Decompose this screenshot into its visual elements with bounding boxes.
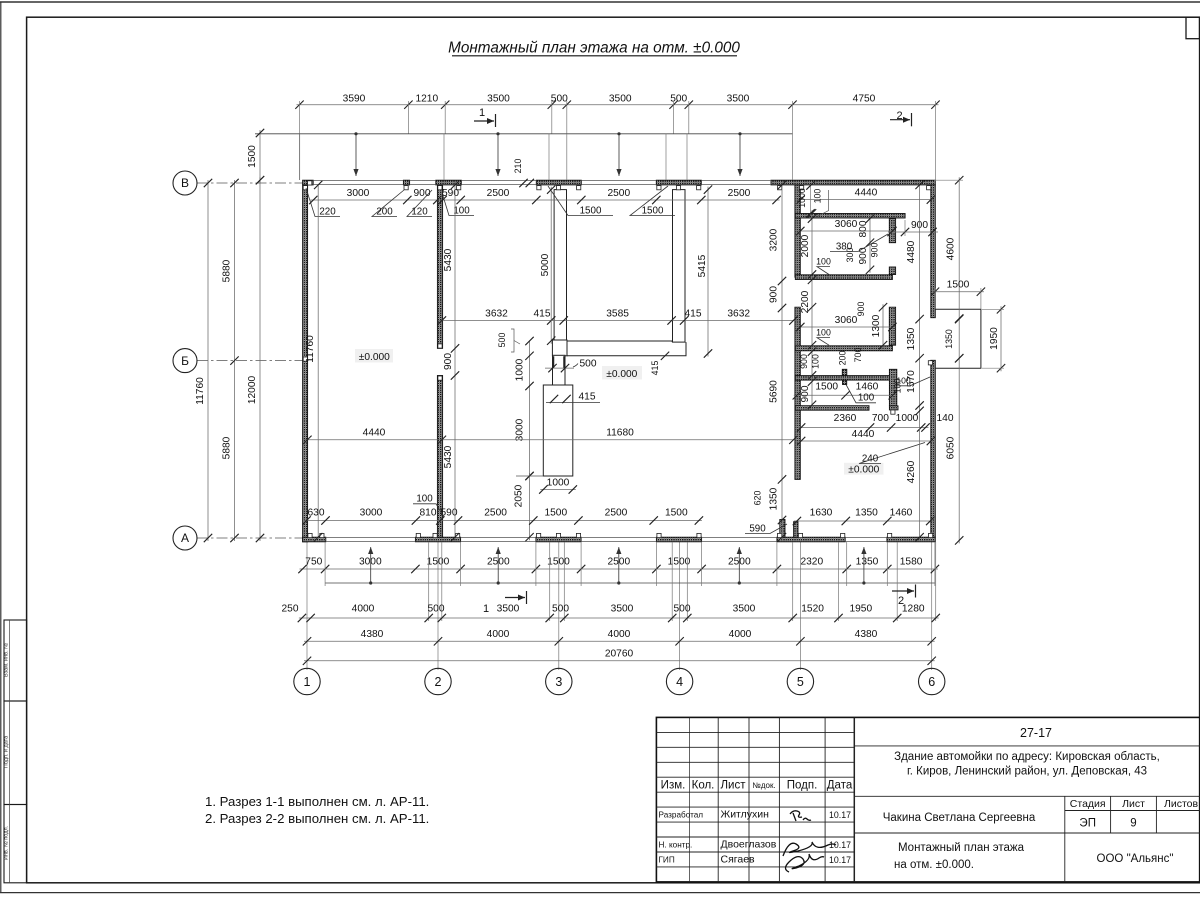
svg-text:Монтажный план этажа на отм. ±: Монтажный план этажа на отм. ±0.000 xyxy=(448,40,740,57)
window sill thin lines in bottom wall openings xyxy=(326,537,416,539)
svg-text:3632: 3632 xyxy=(727,309,750,320)
axis circle 1 xyxy=(294,668,320,694)
svg-text:11680: 11680 xyxy=(606,428,634,439)
extension lines from top dim row down to slab line xyxy=(407,101,409,134)
svg-text:Лист: Лист xyxy=(1122,798,1145,810)
svg-text:4380: 4380 xyxy=(361,629,384,640)
svg-text:Дата: Дата xyxy=(827,780,853,792)
svg-text:100: 100 xyxy=(813,189,823,204)
svg-text:1350: 1350 xyxy=(856,557,879,568)
svg-text:3500: 3500 xyxy=(497,604,520,615)
axis circle 6 xyxy=(919,668,945,694)
svg-text:2500: 2500 xyxy=(607,188,630,199)
axis circle А xyxy=(173,526,197,550)
corner doc-number box top right xyxy=(1186,17,1200,39)
svg-text:1460: 1460 xyxy=(890,508,913,519)
svg-text:1500: 1500 xyxy=(815,381,838,392)
svg-text:1500: 1500 xyxy=(642,205,664,216)
svg-text:9: 9 xyxy=(1130,818,1136,830)
svg-text:±0.000: ±0.000 xyxy=(606,369,637,380)
svg-text:2. Разрез 2-2 выполнен см. л.: 2. Разрез 2-2 выполнен см. л. АР-11. xyxy=(205,811,429,826)
svg-text:4440: 4440 xyxy=(855,188,878,199)
cluster partition 2 horizontal xyxy=(795,275,892,280)
svg-text:6050: 6050 xyxy=(946,436,957,459)
svg-text:3000: 3000 xyxy=(360,508,383,519)
svg-text:1000: 1000 xyxy=(515,358,526,381)
svg-text:590: 590 xyxy=(749,523,766,534)
svg-text:240: 240 xyxy=(862,453,879,464)
svg-text:900: 900 xyxy=(856,302,866,317)
svg-text:±0.000: ±0.000 xyxy=(848,464,879,475)
svg-text:590: 590 xyxy=(442,188,459,199)
ventilation duct on axis 4 xyxy=(673,190,686,343)
svg-text:700: 700 xyxy=(853,348,863,363)
svg-text:1300: 1300 xyxy=(871,314,882,337)
svg-text:4000: 4000 xyxy=(729,629,752,640)
axis circle В xyxy=(173,171,197,195)
svg-text:1000: 1000 xyxy=(547,478,570,489)
svg-text:1350: 1350 xyxy=(769,487,780,510)
svg-text:500: 500 xyxy=(552,604,569,615)
svg-text:4260: 4260 xyxy=(906,460,917,483)
svg-text:1500: 1500 xyxy=(544,508,567,519)
svg-text:3500: 3500 xyxy=(611,604,634,615)
sheet outer edge xyxy=(0,1,1200,3)
svg-text:3060: 3060 xyxy=(835,315,858,326)
svg-text:500: 500 xyxy=(497,333,507,348)
svg-text:Изм.: Изм. xyxy=(661,780,686,792)
svg-text:500: 500 xyxy=(674,604,691,615)
svg-text:1500: 1500 xyxy=(947,280,970,291)
svg-text:Б: Б xyxy=(181,354,189,368)
svg-text:Подп. и дата: Подп. и дата xyxy=(4,735,10,768)
dim 500 at duct neck xyxy=(545,367,574,369)
svg-text:3000: 3000 xyxy=(515,418,526,441)
leader 900 door top right xyxy=(888,231,938,233)
right exterior wall on axis 6 upper segment xyxy=(931,185,936,318)
cluster partition 4 horizontal xyxy=(795,376,893,381)
svg-text:900: 900 xyxy=(443,353,454,370)
svg-text:3500: 3500 xyxy=(487,93,510,104)
extension lines at building corners xyxy=(299,101,301,180)
svg-text:2: 2 xyxy=(435,675,442,689)
svg-text:1000: 1000 xyxy=(797,188,807,208)
svg-text:500: 500 xyxy=(670,93,687,104)
svg-text:3060: 3060 xyxy=(835,219,858,230)
room cluster left wall upper segment on axis 5 xyxy=(795,185,800,277)
svg-text:2360: 2360 xyxy=(834,413,857,424)
svg-text:2000: 2000 xyxy=(800,234,811,257)
svg-text:1460: 1460 xyxy=(856,381,879,392)
svg-text:1950: 1950 xyxy=(989,327,1000,350)
top exterior wall segments along row В xyxy=(303,180,314,185)
svg-text:6: 6 xyxy=(928,675,935,689)
svg-text:Чакина Светлана Сергеевна: Чакина Светлана Сергеевна xyxy=(883,812,1036,824)
svg-text:140: 140 xyxy=(937,413,954,424)
svg-text:3: 3 xyxy=(555,675,562,689)
svg-text:415: 415 xyxy=(534,309,551,320)
svg-text:2320: 2320 xyxy=(800,557,823,568)
short wall piece near 590 opening xyxy=(794,522,798,538)
svg-text:100: 100 xyxy=(453,205,470,216)
svg-text:4600: 4600 xyxy=(946,237,957,260)
svg-text:10.17: 10.17 xyxy=(829,840,851,850)
svg-text:5430: 5430 xyxy=(443,248,454,271)
leader 100 at axis-2 bottom xyxy=(413,504,444,517)
svg-text:120: 120 xyxy=(411,206,428,217)
svg-text:Сягаев: Сягаев xyxy=(721,854,756,866)
extension lines to third dim row xyxy=(428,542,430,621)
svg-text:3500: 3500 xyxy=(733,604,756,615)
svg-text:100: 100 xyxy=(816,327,831,337)
svg-text:12000: 12000 xyxy=(247,376,258,405)
svg-text:500: 500 xyxy=(580,359,597,370)
svg-text:900: 900 xyxy=(858,247,869,264)
svg-text:4440: 4440 xyxy=(363,428,386,439)
axis circle 4 xyxy=(666,668,692,694)
cluster partition 3 horizontal xyxy=(795,346,892,351)
svg-text:Взам. инв. №: Взам. инв. № xyxy=(4,643,10,677)
svg-text:100: 100 xyxy=(416,494,433,505)
svg-text:5: 5 xyxy=(797,675,804,689)
svg-text:415: 415 xyxy=(685,309,702,320)
svg-text:630: 630 xyxy=(308,508,325,519)
svg-text:3200: 3200 xyxy=(769,228,780,251)
svg-text:1: 1 xyxy=(304,675,311,689)
leader 100 partition xyxy=(817,267,830,275)
signatures xyxy=(790,811,811,821)
axis circle 2 xyxy=(425,668,451,694)
svg-text:3000: 3000 xyxy=(347,188,370,199)
svg-text:220: 220 xyxy=(319,206,336,217)
svg-text:1350: 1350 xyxy=(906,327,917,350)
svg-text:11760: 11760 xyxy=(195,377,206,405)
svg-text:1350: 1350 xyxy=(855,508,878,519)
svg-text:ГИП: ГИП xyxy=(659,856,675,865)
svg-text:1. Разрез 1-1 выполнен см. л.: 1. Разрез 1-1 выполнен см. л. АР-11. xyxy=(205,794,429,809)
svg-text:100: 100 xyxy=(811,354,821,369)
svg-text:750: 750 xyxy=(305,557,322,568)
cluster corridor wall stub below partition 1 xyxy=(889,219,895,243)
svg-text:3632: 3632 xyxy=(485,309,508,320)
svg-text:1950: 1950 xyxy=(849,604,872,615)
svg-text:3590: 3590 xyxy=(343,93,366,104)
svg-text:Кол.: Кол. xyxy=(692,780,715,792)
duct neck below junction xyxy=(553,355,566,385)
svg-text:4380: 4380 xyxy=(855,629,878,640)
axis column extension lines 1-6 xyxy=(306,542,308,670)
section mark 1 bottom xyxy=(505,597,525,599)
room cluster left wall lower segment on axis 5 xyxy=(795,307,800,479)
svg-text:Н. контр.: Н. контр. xyxy=(659,841,693,850)
svg-text:1500: 1500 xyxy=(427,557,450,568)
svg-text:2500: 2500 xyxy=(484,508,507,519)
svg-text:2: 2 xyxy=(898,595,904,607)
svg-text:4: 4 xyxy=(676,675,683,689)
svg-text:А: А xyxy=(181,531,189,545)
svg-text:Двоеглазов: Двоеглазов xyxy=(721,839,777,851)
svg-text:4440: 4440 xyxy=(852,429,875,440)
svg-text:900: 900 xyxy=(870,243,880,258)
short wall left of bottom-right room xyxy=(780,520,785,538)
leader 380 xyxy=(830,234,888,252)
svg-text:4000: 4000 xyxy=(487,629,510,640)
svg-text:1500: 1500 xyxy=(247,145,258,168)
svg-text:2200: 2200 xyxy=(800,290,811,313)
embedded part marks on walls xyxy=(303,186,307,190)
svg-text:1210: 1210 xyxy=(415,93,438,104)
svg-text:800: 800 xyxy=(858,220,869,237)
svg-text:Лист: Лист xyxy=(721,780,747,792)
svg-text:415: 415 xyxy=(579,392,596,403)
svg-text:1280: 1280 xyxy=(902,604,925,615)
svg-text:100: 100 xyxy=(858,393,875,404)
svg-text:5415: 5415 xyxy=(697,254,708,277)
svg-text:2500: 2500 xyxy=(487,188,510,199)
interior wall on axis 2 lower segment xyxy=(437,376,442,538)
svg-text:5690: 5690 xyxy=(769,380,780,403)
svg-text:1: 1 xyxy=(479,107,485,119)
cluster corridor wall between partitions 4-5 xyxy=(889,369,896,406)
svg-text:27-17: 27-17 xyxy=(1020,726,1052,740)
leader labels 220 200 120 100 under top wall xyxy=(306,188,340,217)
slab outline line below bottom wall with span arrows xyxy=(325,582,935,584)
svg-text:5000: 5000 xyxy=(540,253,551,276)
svg-text:1500: 1500 xyxy=(665,508,688,519)
svg-text:1350: 1350 xyxy=(944,329,954,349)
svg-text:900: 900 xyxy=(769,286,780,303)
right exterior wall on axis 6 lower segment xyxy=(931,360,936,537)
svg-text:Листов: Листов xyxy=(1164,798,1199,810)
svg-text:Житлухин: Житлухин xyxy=(721,809,770,821)
svg-text:2500: 2500 xyxy=(728,188,751,199)
svg-text:ООО "Альянс": ООО "Альянс" xyxy=(1097,853,1174,865)
svg-text:4000: 4000 xyxy=(352,604,375,615)
svg-text:500: 500 xyxy=(551,93,568,104)
title block right part lines xyxy=(854,745,1200,747)
section mark 2 bottom xyxy=(892,590,914,592)
svg-text:700: 700 xyxy=(872,413,889,424)
svg-text:380: 380 xyxy=(836,241,853,252)
elevation label ±0.000 room 2 xyxy=(602,366,642,380)
title block table xyxy=(656,717,1200,882)
window sill thin lines in top wall openings xyxy=(313,180,403,182)
slab span arrows top xyxy=(355,134,357,176)
svg-text:Разработал: Разработал xyxy=(659,811,704,820)
svg-text:810: 810 xyxy=(420,508,437,519)
svg-text:1500: 1500 xyxy=(580,205,602,216)
elevation label ±0.000 room 1 xyxy=(355,349,393,363)
svg-text:5880: 5880 xyxy=(222,436,233,459)
svg-text:11760: 11760 xyxy=(305,335,316,363)
cluster stub wall between partitions 3-4 xyxy=(842,369,847,375)
svg-text:Монтажный план этажа: Монтажный план этажа xyxy=(898,842,1025,854)
svg-text:3500: 3500 xyxy=(609,93,632,104)
svg-text:590: 590 xyxy=(441,508,458,519)
svg-text:900: 900 xyxy=(800,385,811,402)
leader 100 partition 3 xyxy=(817,338,830,346)
slab outline line above top wall xyxy=(255,133,793,135)
svg-text:900: 900 xyxy=(799,354,809,369)
svg-text:500: 500 xyxy=(428,604,445,615)
axis row lines В Б А (dash-dot) xyxy=(197,182,309,184)
svg-text:10.17: 10.17 xyxy=(829,855,851,865)
svg-text:200: 200 xyxy=(376,206,393,217)
cluster partition 1 horizontal xyxy=(795,214,905,219)
svg-text:В: В xyxy=(181,176,189,190)
svg-text:2: 2 xyxy=(896,110,902,122)
svg-text:4480: 4480 xyxy=(906,240,917,263)
svg-text:±0.000: ±0.000 xyxy=(359,352,390,363)
left exterior wall on axis 1 xyxy=(303,185,308,542)
svg-text:20760: 20760 xyxy=(605,648,634,659)
svg-text:100: 100 xyxy=(896,376,911,386)
svg-text:210: 210 xyxy=(513,159,523,174)
svg-text:1500: 1500 xyxy=(547,557,570,568)
svg-text:1520: 1520 xyxy=(801,604,824,615)
svg-text:Инв. № подл.: Инв. № подл. xyxy=(4,825,10,860)
svg-text:на отм. ±0.000.: на отм. ±0.000. xyxy=(894,859,974,871)
cluster partition 5 horizontal xyxy=(795,406,869,411)
svg-text:620: 620 xyxy=(753,491,763,506)
axis circle Б xyxy=(173,349,197,373)
svg-text:5880: 5880 xyxy=(222,259,233,282)
svg-text:г. Киров, Ленинский район, ул.: г. Киров, Ленинский район, ул. Деповская… xyxy=(907,766,1147,778)
axis circle 5 xyxy=(787,668,813,694)
svg-text:1580: 1580 xyxy=(900,557,923,568)
svg-text:Здание автомойки по адресу: Ки: Здание автомойки по адресу: Кировская об… xyxy=(894,751,1160,763)
section mark 2 top xyxy=(890,119,910,121)
svg-text:5430: 5430 xyxy=(443,445,454,468)
section mark 1 top xyxy=(474,120,494,122)
svg-text:2500: 2500 xyxy=(605,508,628,519)
ventilation duct on axis 3 xyxy=(554,190,566,342)
axis circle 3 xyxy=(546,668,572,694)
svg-text:415: 415 xyxy=(650,361,660,376)
svg-text:3585: 3585 xyxy=(606,309,629,320)
foundation box 1000x3000 on axis 3 xyxy=(543,385,573,476)
svg-text:2050: 2050 xyxy=(514,484,525,507)
svg-text:Стадия: Стадия xyxy=(1070,798,1106,810)
leader 415 at foundation box xyxy=(546,402,600,404)
svg-text:3500: 3500 xyxy=(727,93,750,104)
svg-text:ЭП: ЭП xyxy=(1079,818,1096,830)
svg-text:1630: 1630 xyxy=(810,508,833,519)
svg-text:1: 1 xyxy=(483,603,489,615)
interior wall on axis 2 upper segment xyxy=(437,185,442,349)
svg-text:250: 250 xyxy=(282,604,299,615)
cluster corridor wall stub above partition 2 xyxy=(889,267,895,275)
leader 240 xyxy=(859,443,925,464)
svg-text:№док.: №док. xyxy=(752,781,775,790)
svg-text:100: 100 xyxy=(816,256,831,266)
elevation label ±0.000 room 3 xyxy=(844,463,884,475)
leader labels 1500 for top piers xyxy=(548,186,613,216)
left attribute boxes xyxy=(4,620,27,701)
bottom exterior wall segments along row А xyxy=(303,537,326,542)
svg-text:10.17: 10.17 xyxy=(829,810,851,820)
svg-text:4000: 4000 xyxy=(608,629,631,640)
junction square on axis 3 xyxy=(552,340,567,356)
horizontal beam between ducts xyxy=(567,341,672,342)
vestibule outline right of axis 6 xyxy=(935,309,981,368)
svg-text:4750: 4750 xyxy=(853,93,876,104)
svg-text:200: 200 xyxy=(838,351,848,366)
svg-text:Подп.: Подп. xyxy=(787,780,818,792)
cluster corridor wall between partitions 2-3 lower xyxy=(889,307,895,345)
